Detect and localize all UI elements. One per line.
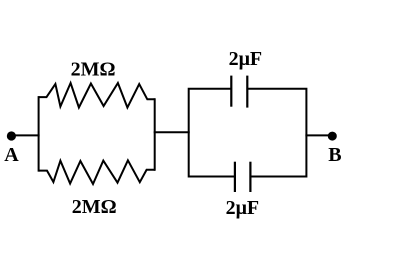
wire middle connector (154, 131, 190, 133)
svg-text:A: A (4, 144, 19, 166)
resistor R1 (39, 83, 155, 108)
capacitor C2 (235, 162, 251, 192)
terminal A (7, 131, 16, 140)
resistor R2 (39, 160, 155, 184)
capacitor C1 (231, 76, 247, 108)
wire capacitor loop left (189, 89, 235, 177)
wire B lead (305, 134, 332, 136)
wire A lead (11, 134, 39, 136)
terminal B (328, 132, 337, 141)
wire left vertical (38, 96, 40, 172)
wire capacitor loop right (247, 89, 306, 177)
svg-text:B: B (328, 144, 341, 166)
svg-text:2MΩ: 2MΩ (72, 196, 117, 218)
svg-text:2μF: 2μF (226, 197, 260, 219)
wire right vertical of resistor loop (154, 98, 156, 171)
svg-text:2μF: 2μF (229, 48, 263, 70)
svg-text:2MΩ: 2MΩ (71, 59, 116, 81)
